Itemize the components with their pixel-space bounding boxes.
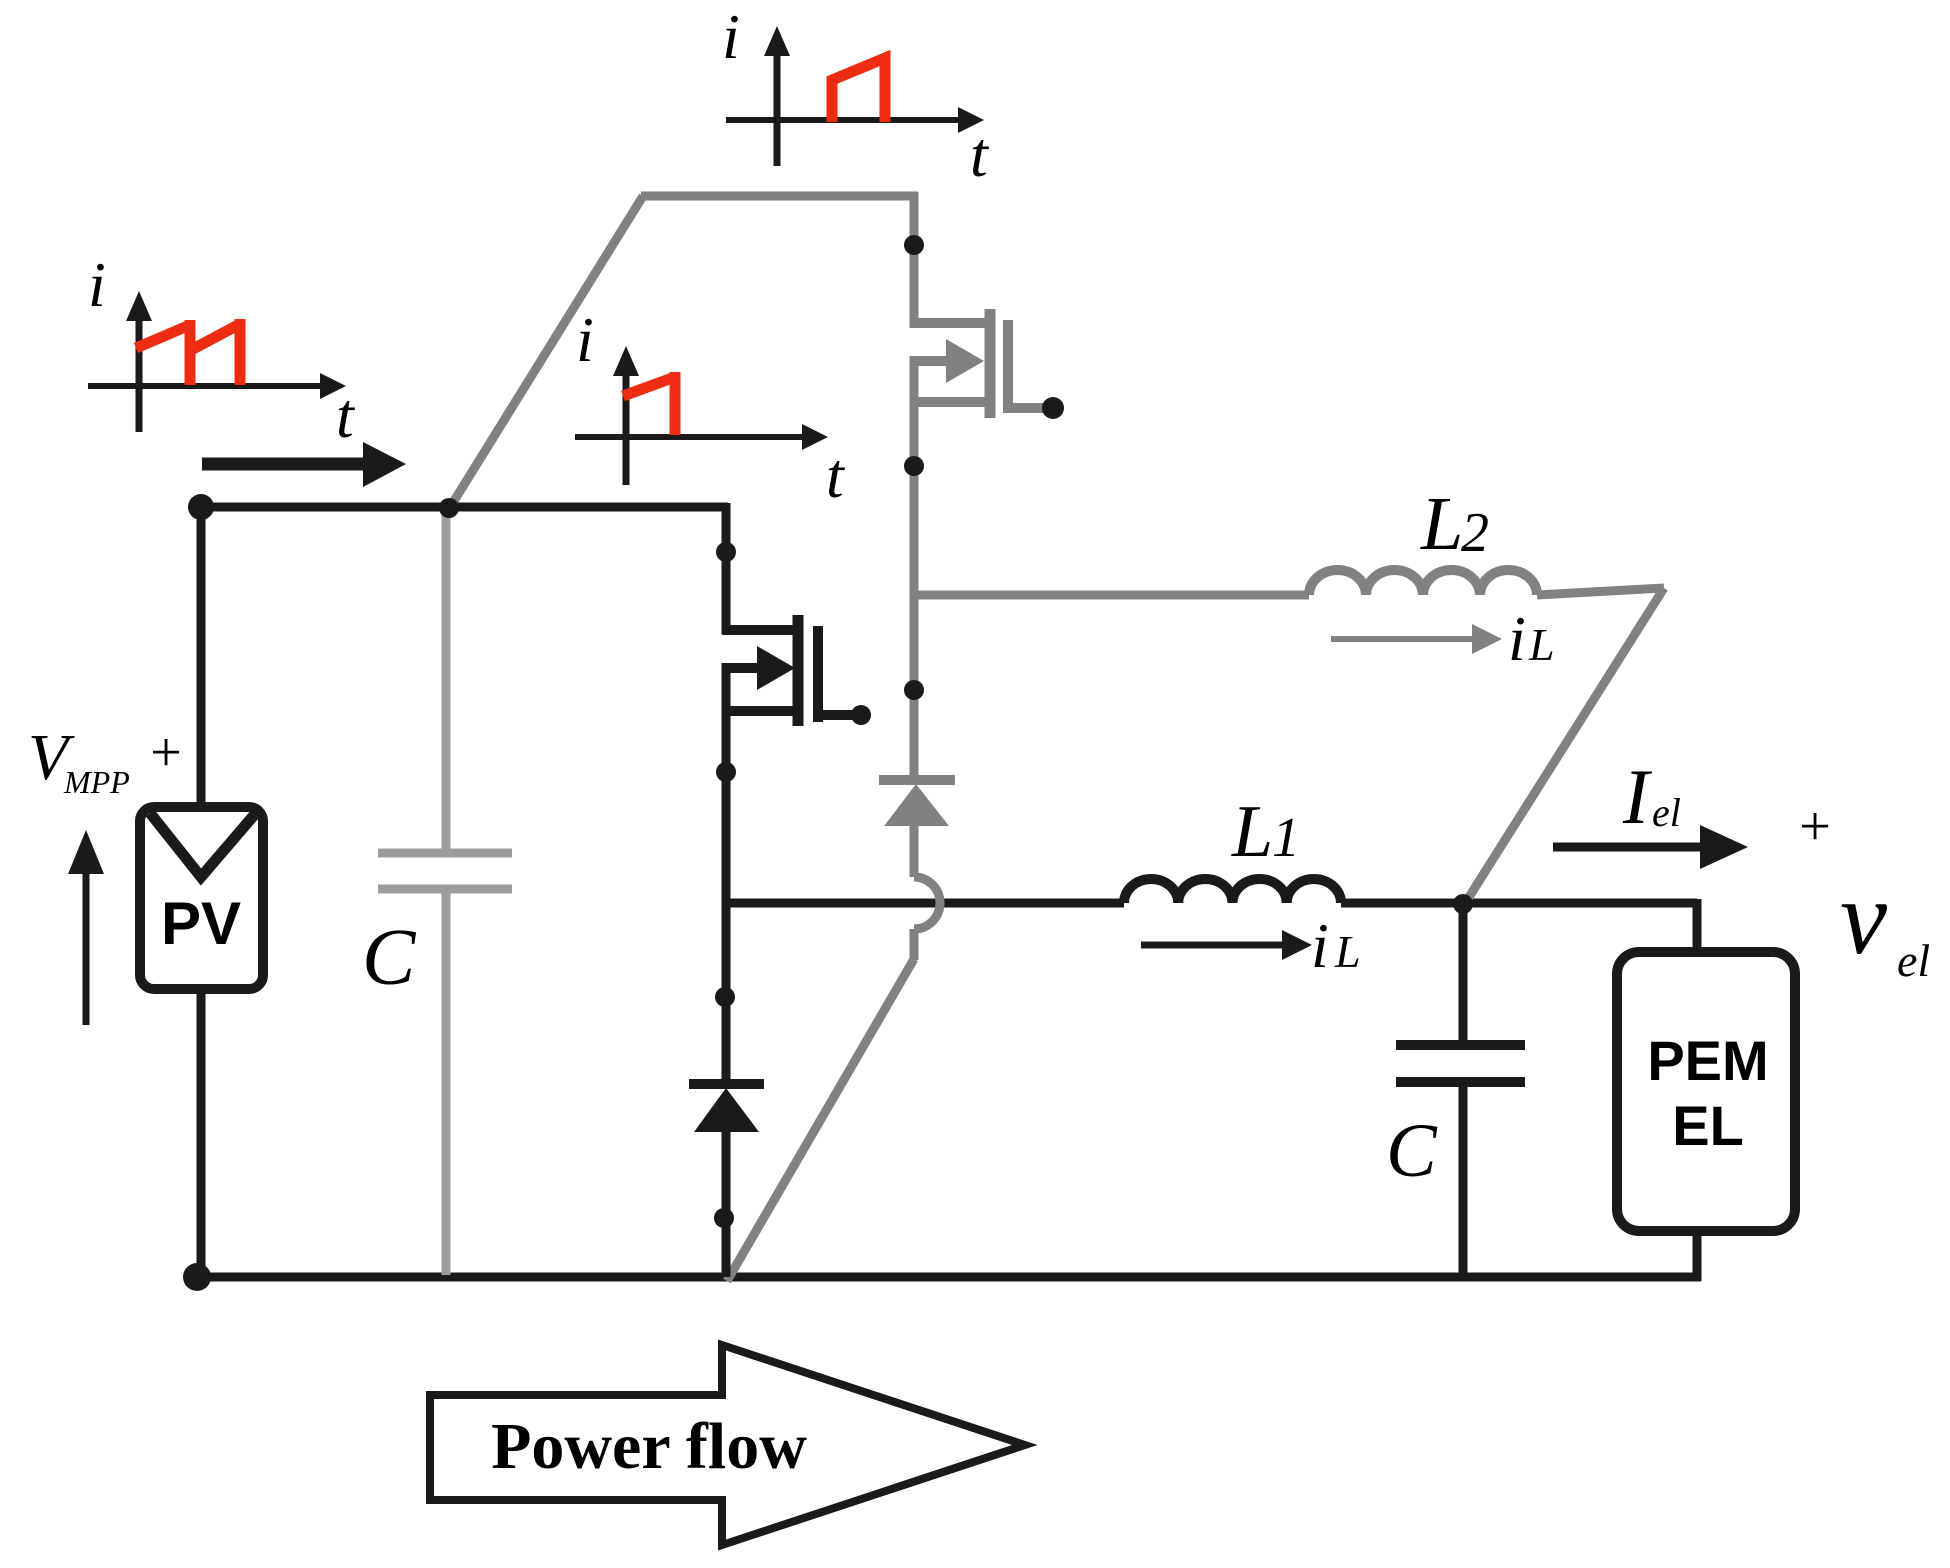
graph C y-axis [764, 26, 790, 166]
capacitor C1 plates [378, 853, 512, 889]
capacitor C2 plates [1396, 1045, 1525, 1082]
wire bottom bus [197, 1273, 1701, 1282]
graph C x-axis [726, 107, 984, 133]
node Q2 drain [904, 235, 924, 255]
svg-text:i: i [722, 1, 740, 72]
wire PEM top lead [1693, 899, 1702, 952]
gray arrow i_L (phase 2) [1331, 624, 1502, 654]
diode D2 (gray) [879, 780, 955, 877]
label V_MPP [28, 721, 130, 800]
graph C red trapezoid waveform [832, 58, 885, 122]
black arrow i_L (phase 1) [1141, 930, 1312, 960]
node D1 anode [714, 1208, 734, 1228]
svg-text:t: t [826, 440, 846, 511]
svg-text:C: C [362, 914, 417, 1002]
svg-text:t: t [336, 380, 356, 451]
gray wire hop over L1 wire [914, 877, 940, 929]
node PV top [188, 494, 214, 520]
power flow block arrow [430, 1345, 1025, 1545]
graph B red waveform [623, 372, 675, 435]
svg-text:PV: PV [161, 890, 241, 957]
svg-text:+: + [1799, 796, 1831, 858]
wire output capacitor top lead [1459, 904, 1468, 1045]
graph A y-axis [126, 291, 152, 432]
svg-text:i: i [1508, 603, 1526, 674]
svg-text:L: L [1231, 791, 1273, 873]
input current arrow [202, 442, 406, 487]
node D2 cathode [904, 680, 924, 700]
svg-text:v: v [1840, 859, 1888, 976]
gray wire to diode [910, 595, 919, 776]
label L1 [1231, 791, 1300, 873]
graph A red sawtooth waveform [136, 319, 240, 385]
svg-text:el: el [1897, 935, 1930, 986]
gray diagonal wire L2 to output node [1464, 588, 1664, 905]
node Q1 drain [716, 542, 736, 562]
wire output capacitor bottom lead [1459, 1082, 1468, 1277]
svg-text:1: 1 [1272, 807, 1300, 869]
svg-text:i: i [1311, 910, 1329, 981]
svg-text:L: L [1420, 482, 1463, 566]
svg-text:C: C [1386, 1109, 1438, 1193]
PV box [140, 807, 263, 989]
svg-text:+: + [150, 722, 182, 784]
label i_L (phase 2) [1508, 603, 1555, 674]
svg-text:EL: EL [1672, 1094, 1744, 1157]
svg-text:el: el [1652, 790, 1681, 835]
PEM EL label [1647, 1029, 1768, 1157]
wire MOSFET Q1 drain vertical [722, 503, 731, 634]
inductor L1 (black) [1124, 879, 1341, 903]
gray diagonal wire from input node [449, 196, 643, 509]
svg-text:i: i [576, 304, 594, 375]
node D1 cathode [715, 987, 735, 1007]
svg-text:t: t [970, 119, 990, 190]
wire L1 left segment [726, 899, 1124, 908]
node PV bottom [183, 1263, 211, 1291]
node Q1 gate terminal [851, 705, 871, 725]
wire PEM bottom lead [1693, 1231, 1702, 1281]
svg-text:i: i [88, 249, 106, 320]
arrow I_el [1553, 825, 1748, 869]
capacitor C1 top lead [442, 509, 451, 853]
graph A x-axis [88, 373, 346, 399]
graph B x-axis [575, 424, 828, 450]
wire top bus [201, 503, 728, 512]
svg-text:L: L [1528, 619, 1555, 670]
MOSFET Q2 (gray) [910, 309, 1050, 418]
gray wire horizontal to L2 [914, 591, 1309, 600]
gray wire MOSFET source vertical [910, 356, 919, 600]
gray wire after L2 [1537, 588, 1664, 595]
gray wire MOSFET drain vertical [910, 192, 919, 328]
PV chevron [150, 813, 255, 877]
node Q1 source [716, 762, 736, 782]
svg-text:MPP: MPP [63, 764, 130, 800]
V_MPP arrow [68, 830, 104, 1025]
graph B y-axis [613, 346, 639, 485]
label I_el [1622, 753, 1681, 840]
wire L1 right segment to output node [1341, 899, 1697, 908]
wire to diode D1 [722, 903, 731, 1080]
capacitor C1 bottom lead [442, 889, 451, 1275]
node Q2 source [904, 456, 924, 476]
gray wire below hop [910, 929, 919, 960]
inductor L2 (gray) [1309, 570, 1537, 595]
label L2 [1420, 482, 1489, 566]
wire MOSFET Q1 source vertical [722, 663, 731, 907]
node input cap top [439, 498, 459, 518]
node output [1453, 894, 1473, 914]
svg-text:PEM: PEM [1647, 1029, 1768, 1092]
gray diagonal wire to bottom bus [727, 959, 914, 1281]
svg-text:Power flow: Power flow [491, 1410, 807, 1483]
svg-text:2: 2 [1461, 502, 1489, 564]
wire PV bottom lead [197, 989, 206, 1277]
MOSFET Q1 (black) [722, 615, 858, 726]
node Q2 gate terminal [1042, 397, 1064, 419]
svg-text:L: L [1334, 926, 1361, 977]
label v_el [1840, 859, 1930, 986]
diode D1 (black) [689, 1084, 764, 1277]
svg-text:I: I [1622, 753, 1653, 840]
gray wire top horizontal [641, 192, 918, 201]
PEM EL box [1617, 952, 1795, 1231]
label i_L (phase 1) [1311, 910, 1361, 981]
wire PV top lead [197, 503, 206, 807]
